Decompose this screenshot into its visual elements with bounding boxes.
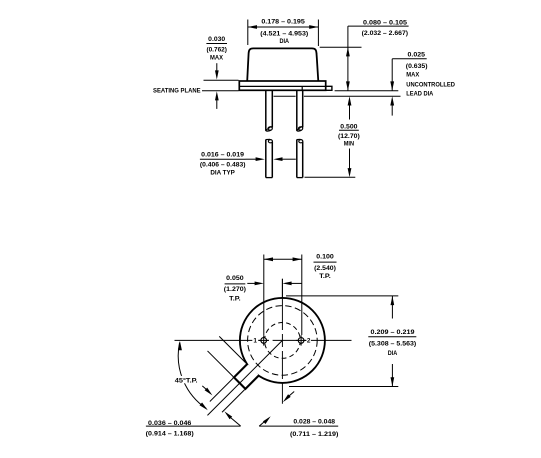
dim 0.050 fraction bar <box>225 283 246 285</box>
dim 0.036 arrow SE stem <box>202 386 207 390</box>
dim 0.500 arrow down <box>348 168 352 177</box>
pin 2 symbol <box>296 335 306 345</box>
lead 2 lower segment <box>297 139 303 177</box>
svg-text:(5.308 – 5.563): (5.308 – 5.563) <box>369 341 417 348</box>
seating plane line right segment (line A) <box>335 90 399 92</box>
dim 0.036 arrow NW <box>224 411 232 419</box>
svg-text:(0.406 – 0.483): (0.406 – 0.483) <box>200 161 246 168</box>
dim 0.025 vertical line <box>391 59 393 91</box>
dim 0.500 arrow up <box>348 96 352 105</box>
can top extension line <box>320 46 362 48</box>
dim DIA top extension line <box>286 295 398 297</box>
tab side-1 extension line <box>222 390 245 413</box>
lead 1 upper segment with break <box>266 90 273 131</box>
dim ext line pin2 <box>301 255 303 336</box>
svg-text:(2.032 – 2.667): (2.032 – 2.667) <box>362 30 409 37</box>
dim 0.080 fraction bar <box>348 25 409 27</box>
dim 0.050 right-pointing arrow <box>255 282 264 286</box>
svg-text:(4.521 – 4.953): (4.521 – 4.953) <box>260 30 308 37</box>
dim ext line pin1 <box>263 255 265 336</box>
svg-text:0.025: 0.025 <box>408 51 426 58</box>
dim 0.178-0.195 extension line right <box>317 20 319 47</box>
dim 0.025 leader bar <box>392 58 427 60</box>
flange tab projection (side view) <box>326 86 332 90</box>
dim 0.016 left-pointing arrow <box>273 157 282 161</box>
vertical centerline <box>281 279 283 404</box>
horizontal centerline <box>175 339 352 341</box>
tab side-2 extension line <box>210 378 233 401</box>
svg-text:(0.914 – 1.168): (0.914 – 1.168) <box>146 431 194 438</box>
flange divider line at lead 2 edge <box>301 86 303 90</box>
dim 0.016 right-pointing arrow stem <box>246 158 257 160</box>
svg-text:0.500: 0.500 <box>340 124 358 131</box>
dim 0.100 arrow left <box>264 257 273 261</box>
svg-text:0.178 – 0.195: 0.178 – 0.195 <box>261 18 305 25</box>
tab outline (bottom view) <box>234 364 259 389</box>
45 deg arc arrow down <box>200 403 208 411</box>
svg-text:1: 1 <box>253 338 257 345</box>
dim 0.016 left-pointing arrow stem <box>282 158 296 160</box>
svg-text:SEATING PLANE: SEATING PLANE <box>153 88 201 95</box>
svg-text:(0.762): (0.762) <box>206 46 227 53</box>
svg-text:0.050: 0.050 <box>226 275 244 282</box>
svg-text:45°T.P.: 45°T.P. <box>175 377 198 385</box>
dim 0.209 fraction bar <box>368 336 416 338</box>
dim 0.500 lower stem <box>349 149 351 169</box>
dim 0.030 upper arrow stem <box>216 63 218 72</box>
lead end extension line <box>305 176 356 178</box>
dim DIA vertical line upper <box>391 296 393 319</box>
svg-text:(12.70): (12.70) <box>338 133 360 140</box>
dim 0.036 arrow NW stem <box>230 417 240 426</box>
can flange (header) <box>239 81 325 90</box>
dim 0.025 arrow up <box>390 96 394 105</box>
svg-text:DIA: DIA <box>388 350 398 357</box>
45 deg arc arrow up <box>178 341 182 350</box>
lead 2 upper segment with break <box>297 90 303 131</box>
svg-text:0.030: 0.030 <box>208 36 225 43</box>
dim 0.030 upper arrow <box>215 70 219 79</box>
dim 0.178-0.195 dimension line <box>248 26 319 28</box>
chord extension line (SE) <box>219 336 245 362</box>
dim ext line center <box>281 279 283 297</box>
tab end extension line (SE) <box>208 351 234 377</box>
dim DIA arrow down <box>391 377 395 386</box>
can body (top view) <box>247 48 318 81</box>
svg-text:0.028 – 0.048: 0.028 – 0.048 <box>293 418 335 425</box>
dim 0.036 leader line <box>146 425 241 427</box>
seating plane leader line <box>202 90 239 92</box>
dim 0.028 arrow SW stem <box>289 392 295 397</box>
dim 0.030 lower arrow stem <box>216 99 218 109</box>
dim 0.025 lower arrow stem <box>391 105 393 116</box>
svg-text:MIN: MIN <box>344 141 354 148</box>
45 deg arc <box>178 343 206 409</box>
uncontrolled-lead-dia line (line B) between leads <box>274 95 296 97</box>
svg-text:T.P.: T.P. <box>229 296 241 303</box>
dim 0.080 vertical line <box>347 26 349 91</box>
dim 0.028 arrow SW <box>283 394 291 402</box>
lead 1 lower segment <box>266 139 273 177</box>
dim 0.025 arrow down <box>390 81 394 90</box>
svg-text:0.080 – 0.105: 0.080 – 0.105 <box>363 20 407 27</box>
dim 0.028 arrow NE stem <box>259 422 264 427</box>
middle dashed circle <box>248 306 318 376</box>
dim 0.080 arrow down <box>346 81 350 90</box>
dim 0.030 lower arrow <box>215 91 219 100</box>
svg-text:0.036 – 0.046: 0.036 – 0.046 <box>148 420 192 427</box>
dim DIA vertical line lower <box>391 364 393 387</box>
dim 0.080 arrow up <box>346 47 350 56</box>
svg-text:(2.540): (2.540) <box>314 265 336 272</box>
svg-text:UNCONTROLLED: UNCONTROLLED <box>406 81 455 88</box>
svg-text:MAX: MAX <box>210 55 224 62</box>
dim 0.016 right-pointing arrow <box>256 157 265 161</box>
svg-text:DIA TYP: DIA TYP <box>210 170 235 177</box>
svg-text:0.209 – 0.219: 0.209 – 0.219 <box>371 329 415 336</box>
dim DIA bottom extension line <box>289 386 398 388</box>
svg-text:(1.270): (1.270) <box>224 286 246 293</box>
flange top extension line left <box>204 79 239 81</box>
pin 1 symbol <box>259 335 269 345</box>
tab centerline at 45 deg <box>207 340 282 415</box>
dim 0.036 arrow SE <box>205 388 213 396</box>
dim 0.178-0.195 arrow left <box>248 25 257 29</box>
bottom view outer circle (case outline) <box>240 298 325 383</box>
dim 0.500 fraction bar <box>339 129 359 131</box>
dim 0.028 leader line <box>259 425 338 427</box>
svg-text:2: 2 <box>307 338 311 345</box>
dim text 45 T.P. <box>174 376 199 385</box>
dim 0.100 dimension line <box>264 258 302 260</box>
svg-text:0.016 – 0.019: 0.016 – 0.019 <box>201 152 244 159</box>
svg-text:(0.635): (0.635) <box>406 63 428 70</box>
svg-text:LEAD DIA: LEAD DIA <box>406 90 433 97</box>
inner dashed circle <box>265 323 301 359</box>
dim 0.028 arrow NE <box>263 416 271 424</box>
svg-text:(0.711 – 1.219): (0.711 – 1.219) <box>290 431 338 438</box>
dim 0.100 arrow right <box>293 257 302 261</box>
svg-text:0.100: 0.100 <box>316 253 334 260</box>
dim 0.500 upper stem <box>349 105 351 120</box>
svg-text:T.P.: T.P. <box>319 273 331 280</box>
dim DIA arrow up <box>391 296 395 305</box>
dim 0.050 right-pointing arrow stem <box>247 282 256 284</box>
dim 0.030 fraction bar <box>206 43 227 45</box>
dim 0.050 left-pointing arrow <box>282 282 291 286</box>
dim 0.178-0.195 arrow right <box>309 25 318 29</box>
dim 0.178-0.195 extension line left <box>247 20 249 46</box>
uncontrolled-lead-dia line (line B) right of lead 2 <box>304 95 401 97</box>
dim 0.016 fraction bar <box>200 158 246 160</box>
svg-text:MAX: MAX <box>406 72 419 79</box>
dim 0.050 left-pointing arrow stem <box>291 282 302 284</box>
dim 0.100 fraction bar <box>314 261 337 263</box>
svg-text:DIA: DIA <box>280 38 290 45</box>
